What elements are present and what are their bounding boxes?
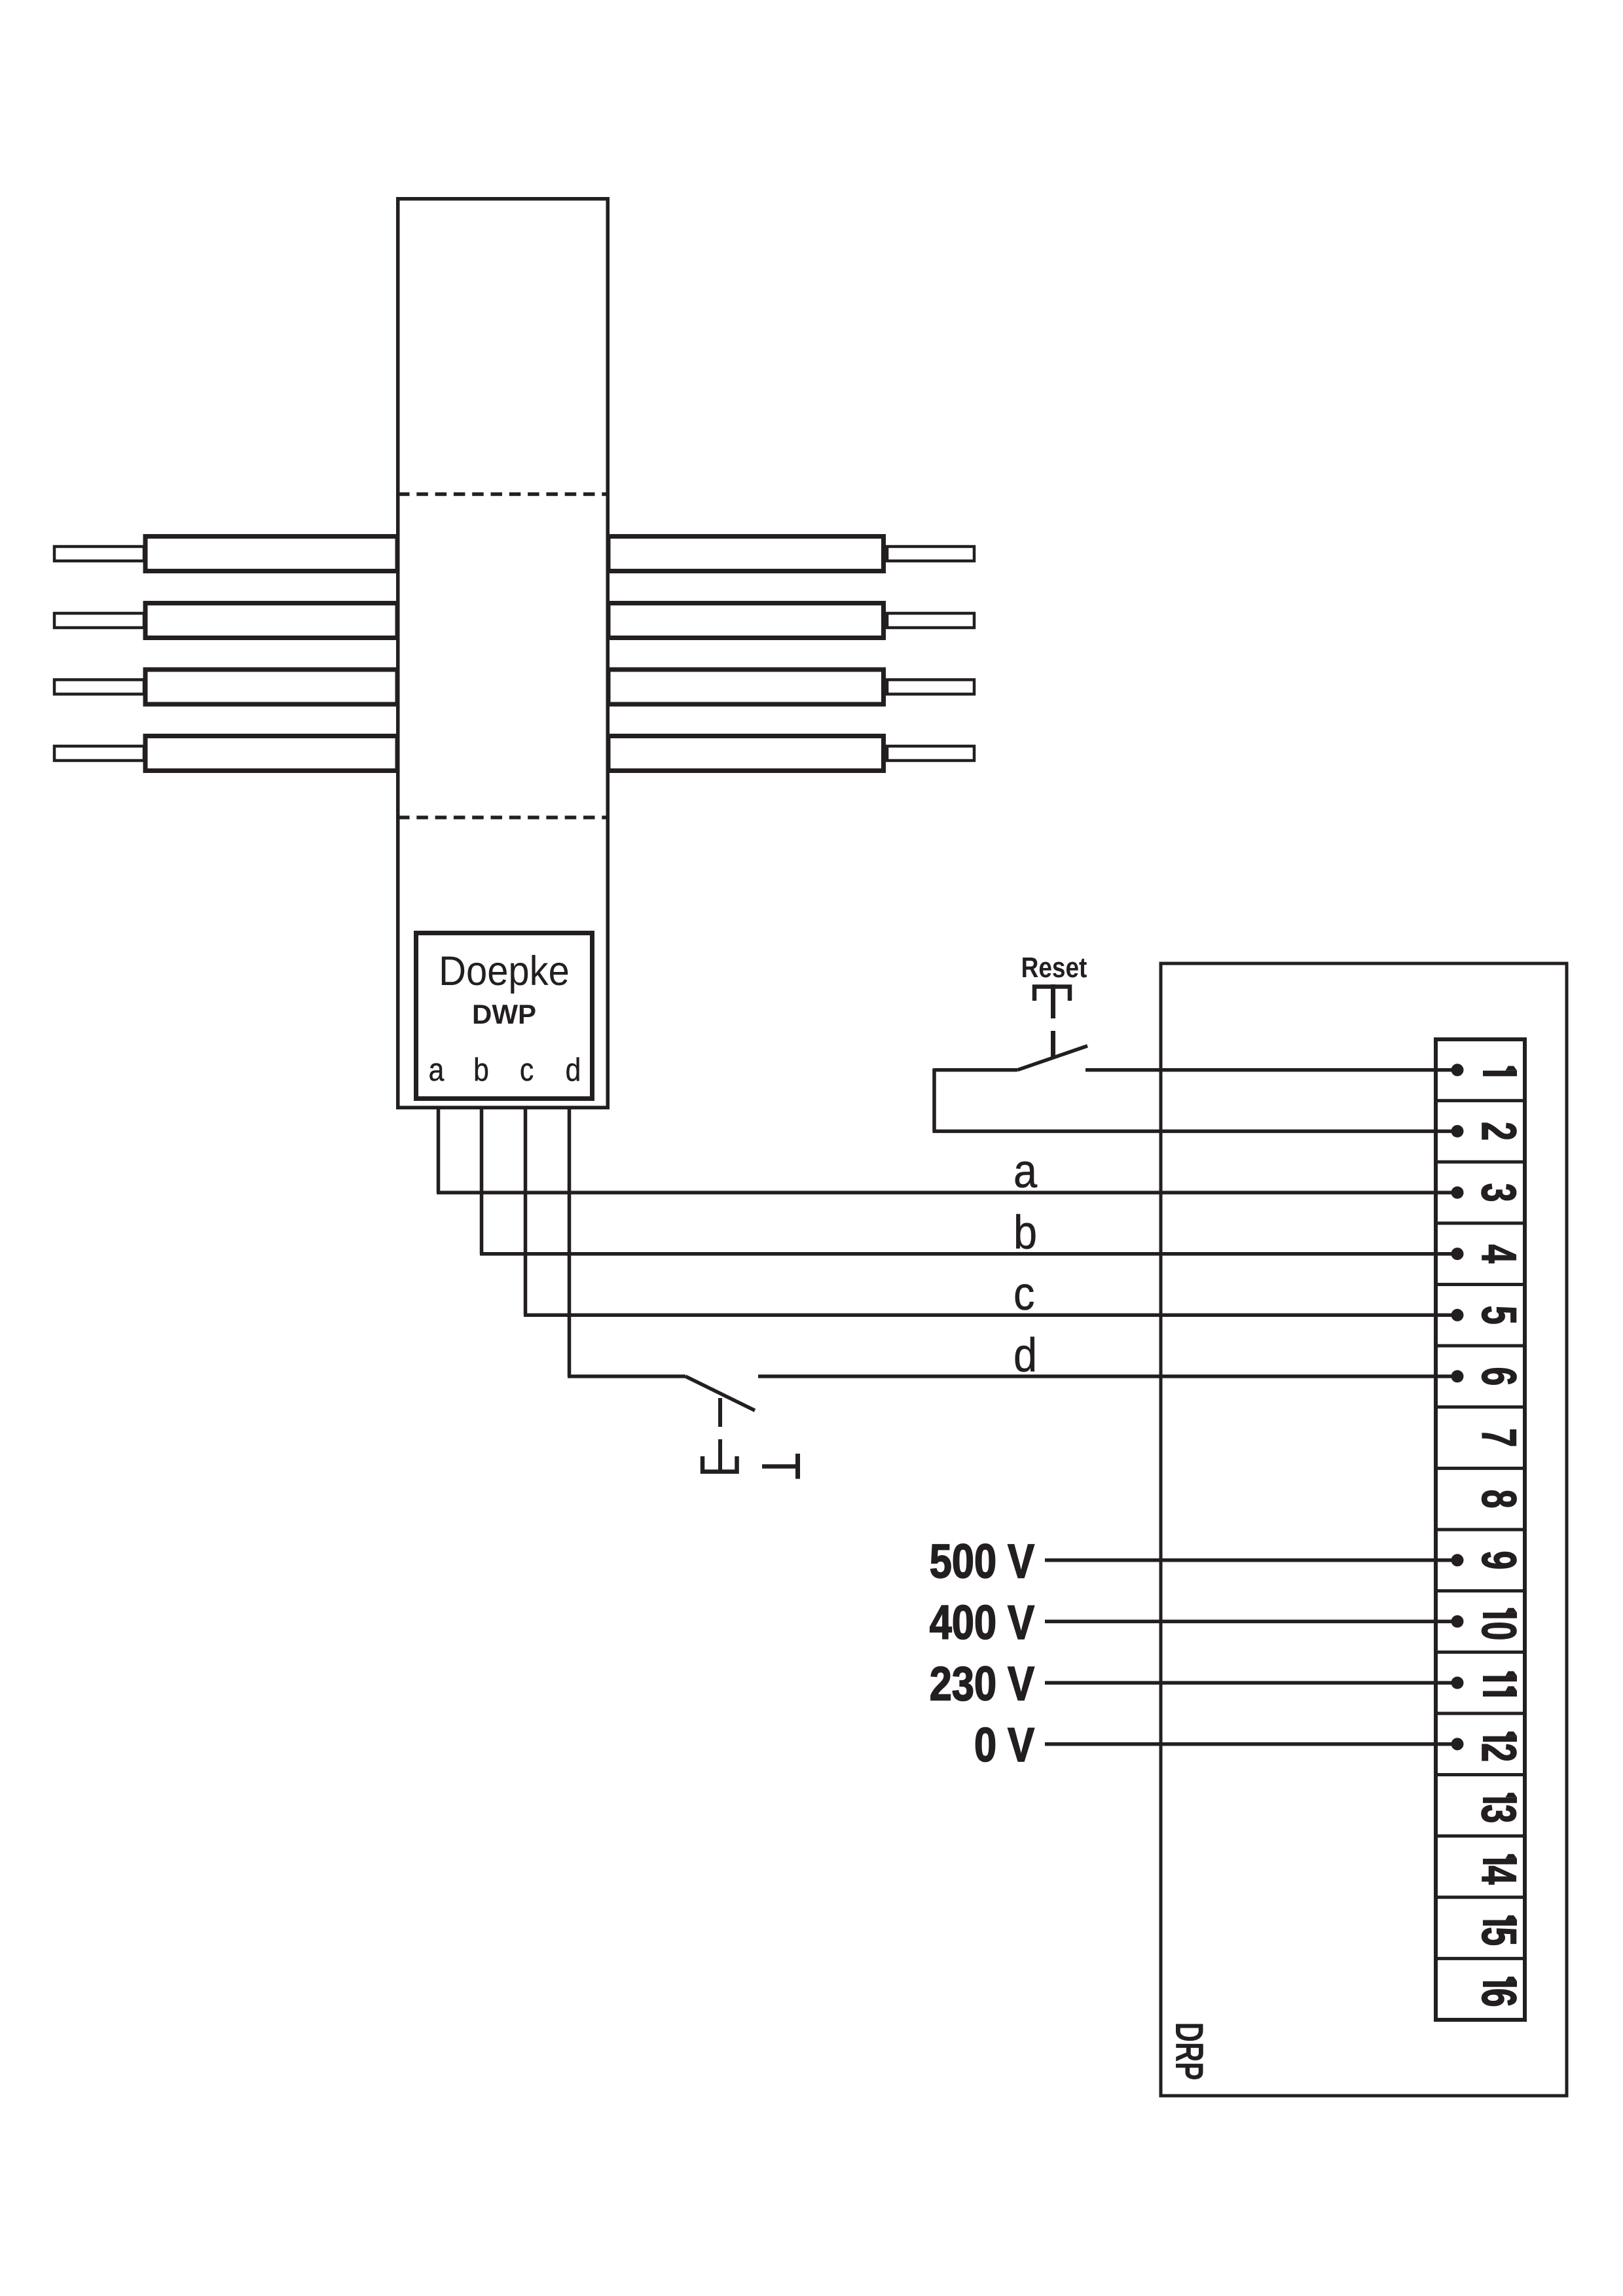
terminal divider 4/5 <box>1434 1283 1527 1286</box>
svg-text:4: 4 <box>1472 1244 1526 1263</box>
conductor L2 left insulated cable <box>145 603 397 638</box>
terminal divider 1/2 <box>1434 1099 1527 1102</box>
terminal divider 14/15 <box>1434 1895 1527 1899</box>
svg-text:b: b <box>1013 1206 1037 1259</box>
terminal divider 12/13 <box>1434 1773 1527 1776</box>
wire 0 V to terminal 12 <box>1045 1742 1457 1746</box>
terminal pin number 10 <box>1483 1613 1517 1619</box>
terminal divider 6/7 <box>1434 1405 1527 1408</box>
Doepke DWP label box <box>416 933 593 1099</box>
wire 230 V to terminal 11 <box>1045 1681 1457 1685</box>
terminal pin number 1 <box>1483 1071 1517 1077</box>
transformer DWP body <box>398 199 608 1108</box>
switch S2 linkage (dashed) <box>718 1398 722 1427</box>
terminal pin number 16 <box>1483 1981 1517 1987</box>
conductor L3 right wire stub <box>887 680 974 694</box>
svg-text:c: c <box>520 1051 534 1087</box>
junction dot terminal 11 <box>1451 1677 1464 1689</box>
wire a: horizontal to terminal <box>437 1191 1457 1194</box>
wire c: horizontal to terminal <box>524 1314 1457 1318</box>
svg-text:0 V: 0 V <box>974 1719 1034 1772</box>
terminal pin number 14 <box>1483 1859 1517 1865</box>
conductor L1 left insulated cable <box>145 537 397 571</box>
conductor L4 right wire stub <box>887 746 974 761</box>
conductor L1 right wire stub <box>887 547 974 561</box>
svg-text:2: 2 <box>1472 1122 1526 1141</box>
relay DRP box <box>1161 963 1567 2096</box>
conductor L4 right insulated cable <box>608 736 884 771</box>
svg-text:0: 0 <box>1472 1621 1526 1640</box>
terminal divider 9/10 <box>1434 1589 1527 1592</box>
terminal pin number 13 <box>1483 1797 1517 1803</box>
wire b: horizontal to terminal <box>480 1252 1457 1256</box>
wire: S1 return drop <box>932 1068 936 1131</box>
conductor L3 left insulated cable <box>145 670 397 704</box>
terminal pin number 12 <box>1483 1736 1517 1742</box>
junction dot terminal 6 <box>1451 1370 1464 1382</box>
svg-text:a: a <box>429 1051 445 1087</box>
svg-text:5: 5 <box>1472 1306 1526 1325</box>
pushbutton S1 linkage (dashed) <box>1051 1031 1055 1058</box>
wire 400 V to terminal 10 <box>1045 1620 1457 1624</box>
conductor L1 left wire stub <box>54 547 144 561</box>
svg-text:d: d <box>1013 1329 1037 1382</box>
svg-text:500 V: 500 V <box>930 1535 1034 1588</box>
junction dot terminal 1 <box>1451 1064 1464 1076</box>
transformer dashed separation bottom <box>398 816 608 819</box>
wire a: vertical drop from DWP <box>437 1107 441 1193</box>
terminal divider 15/16 <box>1434 1957 1527 1960</box>
junction dot terminal 9 <box>1451 1554 1464 1566</box>
junction dot terminal 12 <box>1451 1738 1464 1750</box>
switch S2 detent symbol <box>762 1464 796 1469</box>
wire: return to terminal 2 <box>933 1130 1458 1134</box>
terminal divider 10/11 <box>1434 1651 1527 1654</box>
svg-text:a: a <box>1013 1145 1038 1198</box>
conductor L2 right insulated cable <box>608 603 884 638</box>
junction dot terminal 3 <box>1451 1187 1464 1199</box>
junction dot terminal 2 <box>1451 1125 1464 1138</box>
wire: reset button left to terminal pivot <box>934 1068 1017 1072</box>
terminal divider 3/4 <box>1434 1221 1527 1225</box>
conductor L3 left wire stub <box>54 680 144 694</box>
conductor L2 right wire stub <box>887 613 974 628</box>
svg-text:3: 3 <box>1472 1804 1526 1823</box>
wire d: to switch S2 <box>568 1374 685 1378</box>
conductor L3 right insulated cable <box>608 670 884 704</box>
wire 500 V to terminal 9 <box>1045 1558 1457 1562</box>
conductor L2 left wire stub <box>54 613 144 628</box>
svg-text:DRP: DRP <box>1167 2022 1211 2081</box>
svg-text:Doepke: Doepke <box>439 948 570 994</box>
svg-text:6: 6 <box>1472 1367 1526 1386</box>
svg-text:7: 7 <box>1472 1428 1526 1447</box>
wire b: vertical drop from DWP <box>480 1107 484 1254</box>
wire d: S2 fixed contact to terminal 6 <box>758 1374 1457 1378</box>
svg-text:6: 6 <box>1472 1988 1526 2007</box>
terminal divider 7/8 <box>1434 1467 1527 1470</box>
svg-text:400 V: 400 V <box>930 1596 1034 1649</box>
terminal divider 13/14 <box>1434 1835 1527 1838</box>
svg-text:230 V: 230 V <box>930 1658 1034 1711</box>
conductor L4 left wire stub <box>54 746 144 761</box>
terminal pin number 15 <box>1483 1920 1517 1926</box>
pushbutton S1 actuator <box>1034 987 1070 1001</box>
svg-text:5: 5 <box>1472 1927 1526 1946</box>
wire d: vertical drop from DWP <box>568 1107 572 1376</box>
junction dot terminal 5 <box>1451 1309 1464 1321</box>
svg-text:3: 3 <box>1472 1183 1526 1202</box>
terminal divider 8/9 <box>1434 1528 1527 1532</box>
switch S2 contact blade <box>685 1376 755 1410</box>
svg-text:Reset: Reset <box>1021 951 1087 984</box>
wire c: vertical drop from DWP <box>524 1107 528 1315</box>
svg-text:2: 2 <box>1472 1743 1526 1762</box>
switch S2 manual actuator (U) <box>702 1456 737 1472</box>
terminal block X1 <box>1436 1039 1525 2020</box>
svg-text:b: b <box>473 1051 489 1087</box>
terminal divider 5/6 <box>1434 1344 1527 1348</box>
svg-text:9: 9 <box>1472 1551 1526 1570</box>
svg-text:4: 4 <box>1472 1865 1526 1884</box>
junction dot terminal 4 <box>1451 1247 1464 1260</box>
conductor L1 right insulated cable <box>608 537 884 571</box>
svg-text:d: d <box>566 1051 581 1087</box>
transformer dashed separation top <box>398 492 608 496</box>
wire: S1 fixed contact to terminal 1 <box>1085 1068 1457 1072</box>
junction dot terminal 10 <box>1451 1615 1464 1628</box>
conductor L4 left insulated cable <box>145 736 397 771</box>
svg-text:c: c <box>1013 1267 1034 1320</box>
terminal divider 11/12 <box>1434 1712 1527 1715</box>
svg-text:8: 8 <box>1472 1490 1526 1509</box>
svg-text:DWP: DWP <box>472 999 536 1030</box>
terminal divider 2/3 <box>1434 1160 1527 1164</box>
switch S1 contact blade (NO) <box>1017 1046 1087 1070</box>
terminal pin number 11 <box>1483 1676 1517 1682</box>
